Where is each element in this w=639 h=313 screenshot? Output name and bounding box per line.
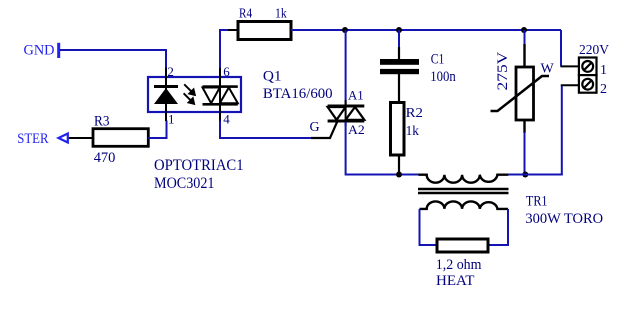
wire down to terminal 1 (560, 30, 562, 66)
svg-text:HEAT: HEAT (436, 273, 474, 289)
svg-text:Q1: Q1 (263, 69, 282, 85)
resistor R3 (93, 129, 148, 147)
svg-text:MOC3021: MOC3021 (154, 175, 215, 192)
junction dot E (522, 172, 528, 178)
svg-text:1: 1 (168, 111, 175, 126)
wire terminal 2 riser (561, 85, 563, 174)
wire bottom rail right (508, 174, 563, 176)
svg-text:W: W (541, 62, 555, 77)
svg-text:6: 6 (223, 64, 230, 79)
svg-text:1k: 1k (406, 124, 419, 139)
svg-text:TR1: TR1 (526, 193, 548, 209)
varistor W body (491, 44, 550, 133)
svg-text:2: 2 (167, 64, 174, 79)
svg-text:BTA16/600: BTA16/600 (263, 86, 333, 102)
svg-text:1,2 ohm: 1,2 ohm (436, 257, 482, 273)
diode LED of optocoupler (154, 68, 178, 121)
transformer TR1 primary winding (418, 175, 508, 183)
wire secondary left lead (420, 209, 438, 245)
capacitor C1 (380, 47, 419, 103)
junction dot B (396, 27, 402, 33)
svg-text:100n: 100n (430, 69, 456, 85)
svg-text:470: 470 (94, 150, 116, 166)
svg-text:G: G (310, 120, 320, 135)
gate lead of Q1 (311, 122, 337, 139)
resistor R2 (391, 103, 405, 156)
svg-text:1: 1 (600, 63, 607, 78)
svg-text:R3: R3 (94, 113, 110, 129)
op-amp box optocoupler U1 body (148, 77, 241, 112)
wire STER to R3 (69, 137, 93, 139)
port STER arrow (59, 134, 68, 143)
wire varistor to bottom rail (524, 132, 526, 175)
svg-text:2: 2 (600, 82, 607, 97)
svg-text:A2: A2 (348, 122, 365, 137)
junction dot C (521, 27, 527, 33)
wire varistor top branch (524, 30, 526, 45)
port GND bar (57, 43, 60, 58)
svg-text:R4: R4 (239, 7, 252, 22)
wire opto pin4 to gate (220, 121, 311, 139)
svg-text:4: 4 (223, 111, 230, 126)
wire A2 to bottom rail (346, 122, 419, 175)
resistor R4 (238, 22, 291, 40)
triac Q1 (328, 100, 365, 126)
wire A1 branch (345, 30, 347, 105)
wire GND to opto pin2 (60, 50, 166, 68)
svg-text:OPTOTRIAC1: OPTOTRIAC1 (154, 157, 244, 174)
wire C1 branch (398, 30, 400, 48)
svg-text:1k: 1k (275, 7, 287, 22)
wire R2 to bottom rail (398, 155, 400, 175)
svg-text:R2: R2 (406, 106, 423, 121)
svg-text:GND: GND (24, 43, 55, 59)
svg-text:220V: 220V (579, 43, 609, 58)
junction dot A (342, 27, 348, 33)
svg-text:STER: STER (17, 131, 48, 147)
wire R3 to opto pin1 (148, 121, 166, 139)
wire top rail (291, 29, 561, 31)
svg-text:C1: C1 (431, 52, 445, 68)
svg-text:300W TORO: 300W TORO (525, 211, 603, 227)
resistor heater 1,2 ohm (437, 239, 488, 252)
triac of optocoupler (203, 68, 238, 121)
svg-text:275V: 275V (495, 52, 511, 91)
wire R4 leads (228, 29, 238, 31)
junction dot D (396, 172, 402, 178)
wire opto pin6 to R4 (220, 30, 238, 68)
transformer TR1 secondary winding (420, 201, 509, 209)
transformer TR1 core (418, 189, 509, 193)
connector X1 220V (561, 58, 597, 93)
light arrows (184, 84, 195, 104)
wire secondary right lead (488, 209, 508, 245)
svg-text:A1: A1 (348, 88, 364, 103)
